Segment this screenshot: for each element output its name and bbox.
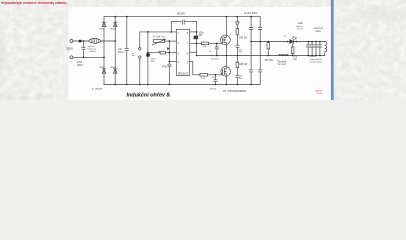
svg-text:Tlumivka: Tlumivka	[277, 61, 287, 63]
svg-text:08.GIF: 08.GIF	[317, 93, 322, 95]
svg-text:~: ~	[68, 50, 70, 54]
svg-text:1N5408: 1N5408	[99, 67, 105, 69]
svg-text:470n: 470n	[77, 62, 83, 64]
svg-text:4x 2u2 400V: 4x 2u2 400V	[244, 12, 258, 15]
svg-text:250V~: 250V~	[118, 52, 125, 54]
svg-text:10R 2W: 10R 2W	[239, 64, 248, 66]
svg-text:Nejrozsáhlejší učebnice elektr: Nejrozsáhlejší učebnice elektroniky zdar…	[1, 1, 67, 5]
svg-text:1kV: 1kV	[239, 52, 243, 54]
svg-text:1kV: 1kV	[239, 78, 243, 80]
svg-text:SAMCIR: SAMCIR	[315, 90, 322, 93]
svg-text:pracovní: pracovní	[314, 27, 323, 30]
svg-text:63V: 63V	[199, 35, 204, 37]
svg-text:BA159: BA159	[177, 12, 185, 15]
svg-text:+280V): +280V)	[89, 51, 96, 53]
svg-text:2u2 63V: 2u2 63V	[211, 58, 219, 60]
svg-text:2nF: 2nF	[118, 49, 123, 51]
svg-text:25V: 25V	[151, 61, 155, 63]
svg-text:1n: 1n	[209, 51, 211, 53]
svg-text:250V~: 250V~	[77, 65, 84, 67]
svg-text:cívka: cívka	[315, 31, 321, 33]
svg-text:1N5408: 1N5408	[110, 67, 116, 69]
svg-text:IR2153: IR2153	[178, 71, 189, 75]
svg-text:10R: 10R	[202, 46, 206, 48]
svg-text:1N5408: 1N5408	[99, 28, 105, 30]
svg-text:kondenzátorů: kondenzátorů	[310, 61, 323, 64]
svg-text:10R: 10R	[201, 78, 205, 80]
svg-text:viz.: viz.	[283, 35, 286, 37]
svg-text:LED: LED	[298, 22, 303, 25]
svg-text:rezonančních: rezonančních	[310, 58, 323, 61]
svg-text:při čin.: při čin.	[297, 29, 304, 31]
svg-text:470p: 470p	[162, 67, 168, 69]
svg-text:rozsvíc.: rozsvíc.	[296, 25, 304, 28]
svg-text:baterie: baterie	[310, 55, 317, 58]
svg-text:10R 2W: 10R 2W	[239, 37, 248, 39]
svg-text:1N5408: 1N5408	[110, 28, 116, 30]
svg-text:2x STP20NM60: 2x STP20NM60	[223, 91, 247, 93]
svg-text:(S) 0V: (S) 0V	[210, 88, 217, 90]
svg-text:Indukční ohřev 8.: Indukční ohřev 8.	[127, 93, 172, 99]
svg-text:4x 1N5408: 4x 1N5408	[92, 88, 103, 90]
svg-text:Tr. 10k / lin: Tr. 10k / lin	[153, 36, 165, 39]
svg-text:viz. text: viz. text	[278, 63, 286, 66]
svg-text:4R7 6W: 4R7 6W	[265, 60, 274, 62]
